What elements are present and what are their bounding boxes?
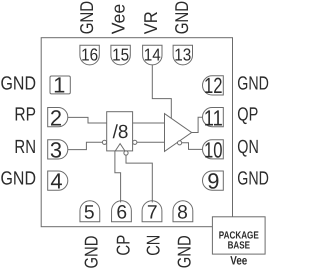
svg-text:5: 5: [84, 202, 95, 223]
svg-text:GND: GND: [80, 236, 101, 269]
pin 13: [173, 45, 192, 65]
pin 6: [112, 201, 132, 222]
svg-text:RP: RP: [14, 105, 36, 126]
pin 5: [80, 201, 100, 222]
wire VR pin14 to buffer top: [152, 65, 171, 119]
pin 9: [203, 171, 224, 190]
svg-text:14: 14: [144, 44, 161, 64]
pin 16: [80, 45, 99, 65]
bubble /8 right output: [133, 140, 137, 144]
wire RP pin2 to /8 input: [68, 117, 107, 123]
svg-text:QP: QP: [237, 105, 258, 126]
wire /8 inverted output to buffer: [137, 141, 165, 143]
svg-text:GND: GND: [1, 169, 37, 190]
svg-text:3: 3: [50, 138, 62, 163]
svg-text:Vee: Vee: [108, 4, 129, 35]
package base box: [212, 217, 265, 254]
pin 2: [48, 108, 68, 127]
svg-text:10: 10: [204, 138, 223, 163]
svg-text:15: 15: [112, 44, 129, 64]
svg-text:GND: GND: [76, 1, 97, 35]
svg-text:GND: GND: [237, 73, 269, 94]
bubble /8 left input: [102, 140, 106, 144]
svg-text:BASE: BASE: [228, 241, 251, 252]
bubble QN inverted output: [178, 141, 182, 145]
svg-text:GND: GND: [171, 1, 192, 35]
pin 10: [203, 140, 224, 159]
wire RN pin3 to /8 inverted input: [68, 142, 103, 149]
svg-text:2: 2: [50, 106, 62, 131]
svg-text:GND: GND: [174, 235, 195, 268]
svg-text:6: 6: [116, 202, 127, 223]
pin 7: [142, 201, 162, 222]
pin 8: [173, 201, 193, 222]
svg-text:/8: /8: [113, 122, 129, 143]
svg-text:RN: RN: [14, 137, 36, 158]
pin 4: [48, 171, 68, 190]
svg-text:GND: GND: [237, 169, 269, 190]
buffer amplifier U2: [165, 114, 192, 152]
pin 14: [143, 45, 162, 65]
wire QP buffer output to pin11: [192, 117, 203, 132]
svg-text:16: 16: [81, 44, 98, 64]
svg-text:9: 9: [207, 168, 219, 193]
svg-text:Vee: Vee: [230, 254, 247, 268]
svg-text:QN: QN: [237, 137, 258, 158]
pin 12: [203, 76, 224, 95]
bubble /8 clock N input: [124, 151, 128, 155]
wire CN pin7 to clock bubble: [126, 155, 152, 202]
svg-text:13: 13: [174, 44, 191, 64]
pin 15: [111, 45, 130, 65]
svg-text:12: 12: [204, 73, 223, 98]
wire /8 output top to buffer: [133, 122, 165, 124]
pin 11: [203, 108, 224, 127]
pin 3: [48, 140, 68, 159]
svg-text:4: 4: [50, 168, 62, 193]
pin 1: [50, 76, 70, 94]
svg-text:1: 1: [53, 73, 65, 98]
svg-text:GND: GND: [1, 73, 37, 94]
clock wedge of /8: [115, 144, 125, 151]
wire CP pin6 to clock wedge: [115, 151, 121, 203]
svg-text:CP: CP: [112, 235, 133, 256]
svg-text:8: 8: [177, 202, 188, 223]
divider block U1 /8: [107, 112, 133, 151]
svg-text:CN: CN: [143, 235, 164, 256]
chip body outline: [41, 38, 232, 227]
svg-text:7: 7: [147, 202, 158, 223]
svg-text:VR: VR: [140, 11, 161, 34]
svg-text:11: 11: [204, 106, 223, 131]
wire QN bubble to pin10: [182, 143, 203, 150]
